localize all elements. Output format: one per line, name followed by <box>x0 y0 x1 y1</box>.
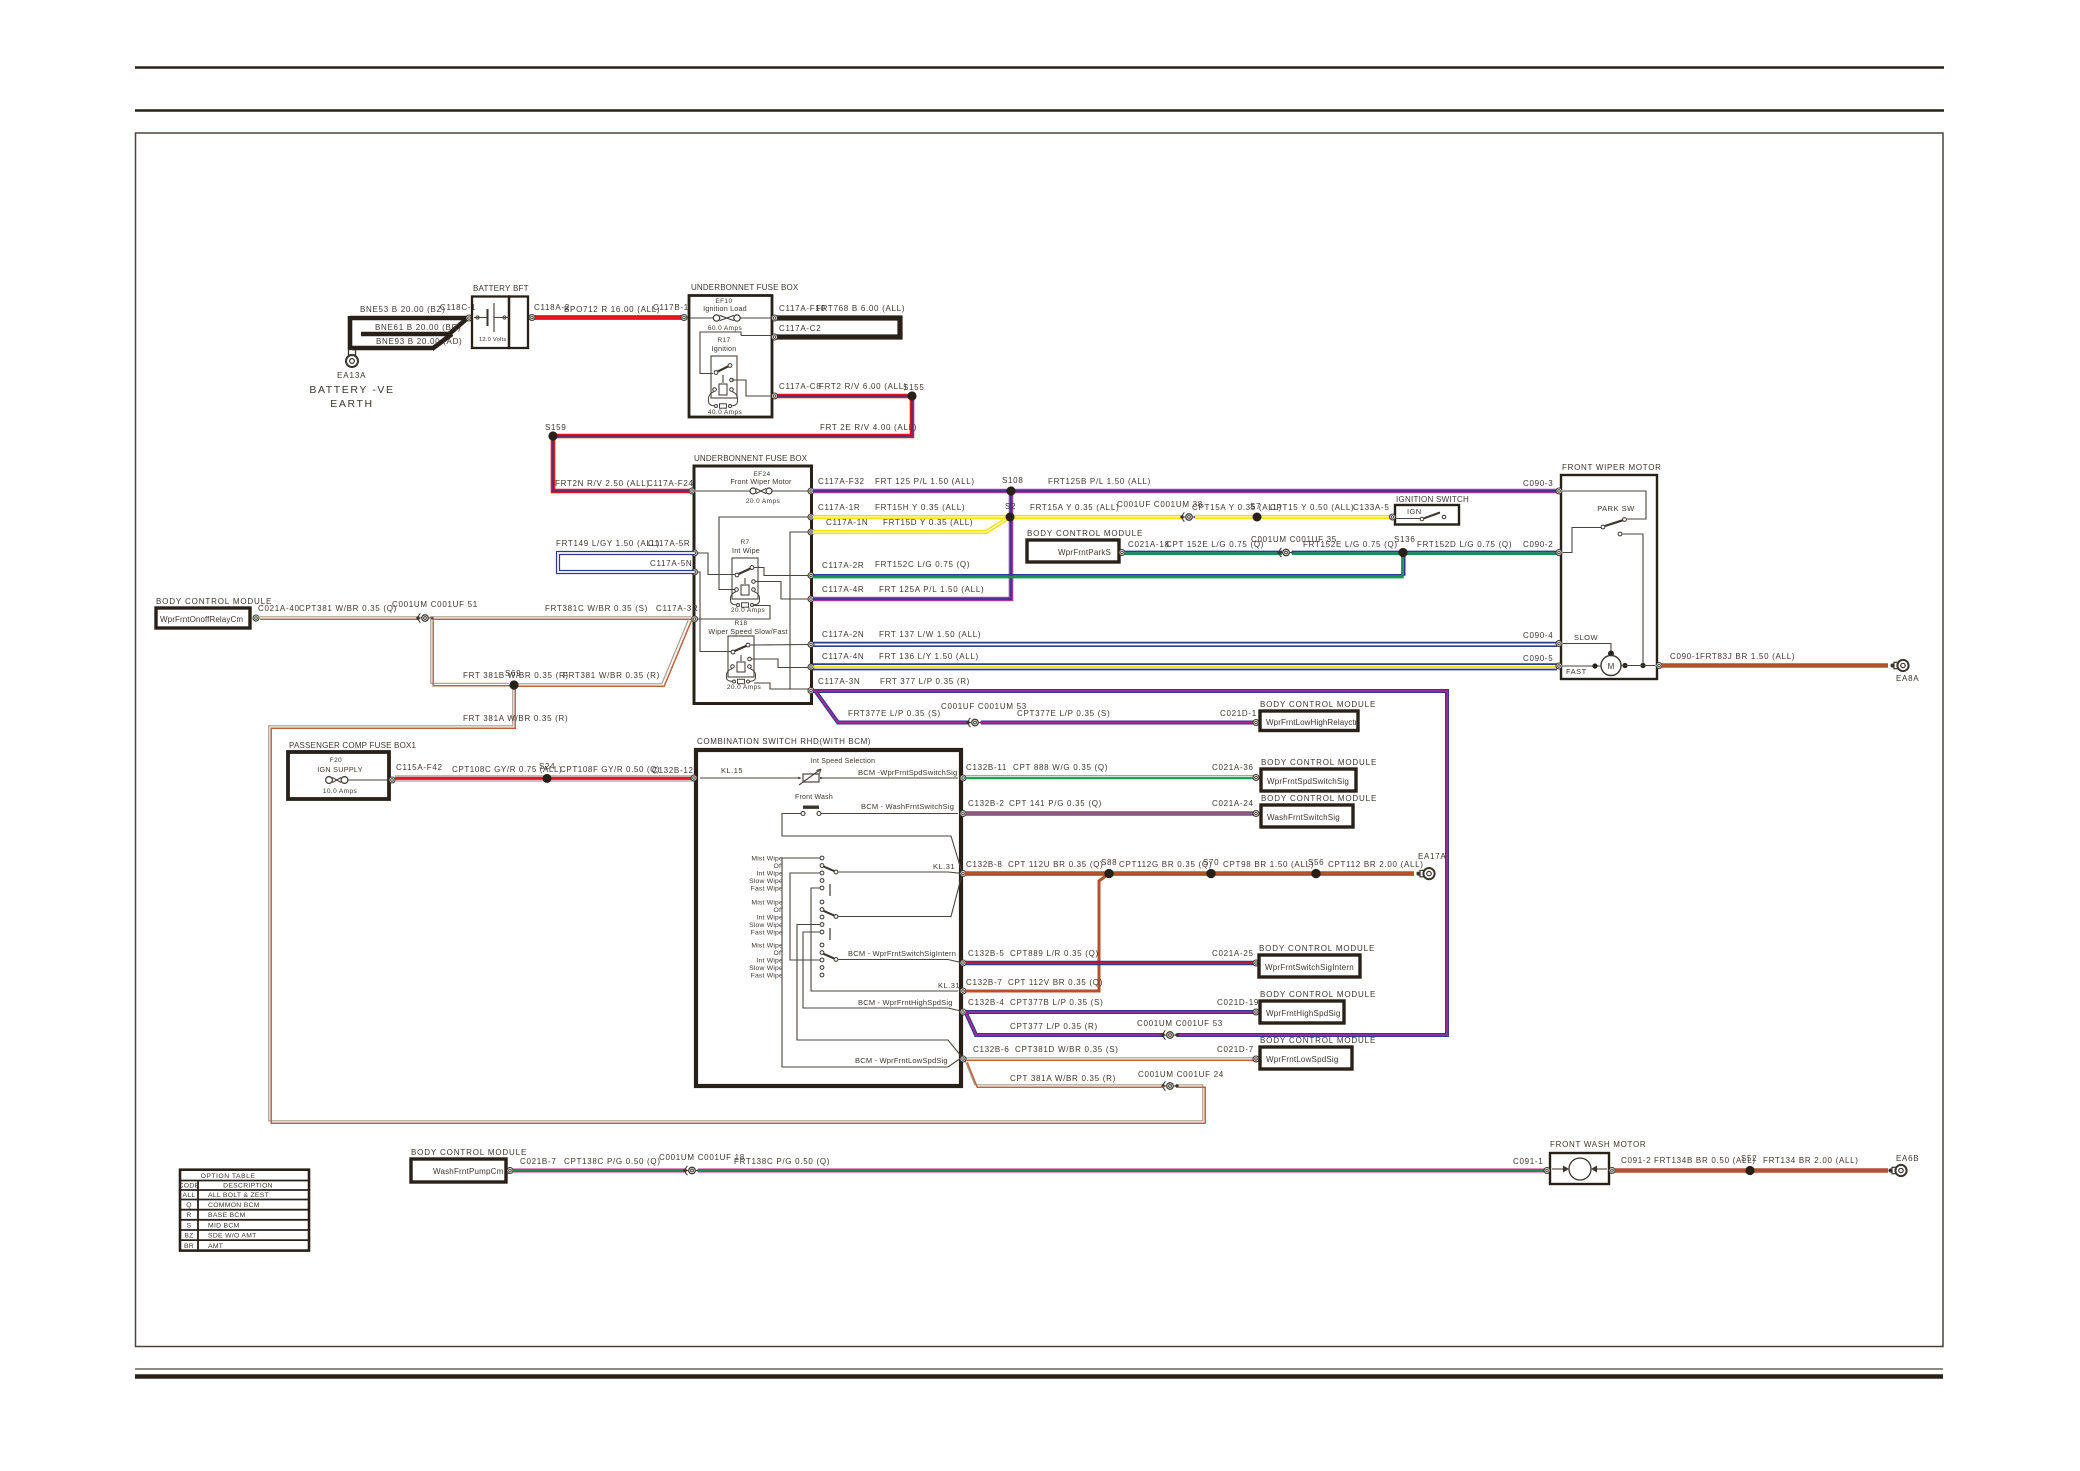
wire CPT377B L/P 0.35 (S) <box>966 1010 1255 1014</box>
inline connector C001UM C001UF 18 <box>683 1169 686 1172</box>
passenger comp fuse box1 <box>288 752 389 799</box>
svg-text:BATTERY: BATTERY <box>473 284 511 293</box>
svg-text:CPT 381A W/BR 0.35 (R): CPT 381A W/BR 0.35 (R) <box>1010 1074 1116 1083</box>
pin C132B-2 <box>960 811 966 817</box>
svg-text:10.0 Amps: 10.0 Amps <box>323 788 358 795</box>
svg-text:BASE BCM: BASE BCM <box>208 1212 246 1219</box>
wire FRT381C W/BR 0.35 (S) <box>430 616 691 618</box>
option table <box>180 1170 309 1251</box>
svg-text:CPT 141 P/G 0.35 (Q): CPT 141 P/G 0.35 (Q) <box>1009 799 1102 808</box>
svg-text:WprFrntParkS: WprFrntParkS <box>1058 548 1111 557</box>
svg-text:ALL BOLT & ZEST: ALL BOLT & ZEST <box>208 1192 269 1199</box>
svg-text:FRT 125A P/L 1.50 (ALL): FRT 125A P/L 1.50 (ALL) <box>879 585 984 594</box>
svg-text:C021D-7: C021D-7 <box>1217 1045 1254 1054</box>
svg-text:UNDERBONNET FUSE BOX: UNDERBONNET FUSE BOX <box>691 283 799 292</box>
wire FRT83J BR 1.50 (ALL) <box>1662 663 1888 668</box>
svg-text:CPT377E L/P 0.35 (S): CPT377E L/P 0.35 (S) <box>1017 709 1110 718</box>
svg-text:C117A-1R: C117A-1R <box>818 503 860 512</box>
ground EA17A <box>1416 872 1420 876</box>
wire FRT 137 L/W 1.50 (ALL) <box>813 642 1557 644</box>
svg-text:C021A-18: C021A-18 <box>1128 540 1170 549</box>
top rule 1 <box>135 66 1944 69</box>
wire FRT 125 P/L 1.50 (ALL) <box>813 489 1011 494</box>
svg-text:CPT 112V BR 0.35 (Q): CPT 112V BR 0.35 (Q) <box>1008 978 1103 987</box>
wire CPT112 BR 2.00 (ALL) <box>1316 871 1414 876</box>
svg-text:CPT889 L/R 0.35 (Q): CPT889 L/R 0.35 (Q) <box>1010 949 1099 958</box>
svg-text:FRT 377 L/P 0.35 (R): FRT 377 L/P 0.35 (R) <box>880 677 970 686</box>
splice S7 <box>1253 513 1262 522</box>
svg-text:C117A-F24: C117A-F24 <box>647 479 694 488</box>
pin C117A-1R <box>808 514 814 520</box>
wire CPT 141 P/G 0.35 (Q) <box>966 811 1255 815</box>
wire BNE53 B 20.00 (BZ) <box>350 316 467 321</box>
svg-text:C090-3: C090-3 <box>1523 479 1553 488</box>
wire CPT15A Y 0.35 (ALL) <box>1195 515 1257 519</box>
wire FRT768 B 6.00 (ALL) <box>774 318 900 337</box>
splice S159 <box>548 431 557 440</box>
wire FRT 381A W/BR 0.35 (R) <box>269 684 1203 1121</box>
svg-text:20.0 Amps: 20.0 Amps <box>746 498 781 505</box>
svg-text:C021D-19: C021D-19 <box>1217 998 1259 1007</box>
node C118A-2 <box>529 315 535 321</box>
wire CPT 888 W/G 0.35 (Q) <box>966 775 1255 777</box>
svg-text:C117A-1N: C117A-1N <box>826 518 868 527</box>
inline connector C001UM C001UF 24 <box>1161 1084 1164 1087</box>
svg-text:C001UM C001UF 18: C001UM C001UF 18 <box>659 1153 745 1162</box>
wiper motor fast feed <box>1563 665 1601 667</box>
fusebox2 internal wire C117A-5R to R7 <box>697 553 735 575</box>
svg-text:FRT149 L/GY 1.50 (ALL): FRT149 L/GY 1.50 (ALL) <box>556 539 660 548</box>
wire CPT377 L/P 0.35 (R) <box>966 1013 1164 1035</box>
svg-text:C091-2: C091-2 <box>1621 1156 1651 1165</box>
svg-text:F20: F20 <box>330 757 342 764</box>
svg-text:AMT: AMT <box>208 1243 223 1250</box>
wiper switch stack 1 <box>820 856 824 860</box>
svg-text:WprFrntLowSpdSig: WprFrntLowSpdSig <box>1266 1055 1339 1064</box>
svg-text:40.0 Amps: 40.0 Amps <box>708 409 743 416</box>
svg-text:FRT15A Y 0.35 (ALL): FRT15A Y 0.35 (ALL) <box>1030 503 1119 512</box>
svg-text:BODY CONTROL MODULE: BODY CONTROL MODULE <box>1261 758 1377 767</box>
pin C117A-2R <box>808 573 814 579</box>
top rule 2 <box>135 109 1944 112</box>
svg-text:C117A-4R: C117A-4R <box>822 585 864 594</box>
svg-text:BODY CONTROL MODULE: BODY CONTROL MODULE <box>411 1148 527 1157</box>
wire FRT152E L/G 0.75 (Q) <box>1292 551 1403 553</box>
wire FRT381 W/BR 0.35 (R) <box>513 619 689 684</box>
underbonnet fuse box <box>689 296 772 418</box>
fusebox2 internal wire C117A-3R to R7 fuse <box>697 606 770 620</box>
fusebox2 internal wire R7 to C117A-2R <box>754 568 809 576</box>
svg-text:BCM - WprFrntHighSpdSig: BCM - WprFrntHighSpdSig <box>858 998 953 1007</box>
pin C117A-3R <box>692 616 698 622</box>
fusebox2 internal wire C117A-1N loop <box>754 532 809 689</box>
svg-text:CPT15A Y 0.35 (ALL): CPT15A Y 0.35 (ALL) <box>1192 503 1282 512</box>
svg-text:SDE W/O AMT: SDE W/O AMT <box>208 1233 257 1240</box>
wire FRT125B P/L 1.50 (ALL) <box>1011 489 1557 494</box>
svg-text:S7: S7 <box>1250 502 1261 511</box>
wire BNE61 B 20.00 (BR) <box>361 332 450 337</box>
ground EA6B <box>1888 1168 1892 1172</box>
svg-text:WprFrntSpdSwitchSig: WprFrntSpdSwitchSig <box>1267 777 1349 786</box>
svg-text:C117A-3R: C117A-3R <box>656 604 698 613</box>
svg-text:COMMON BCM: COMMON BCM <box>208 1202 260 1209</box>
pin C090-2 <box>1556 550 1562 556</box>
svg-text:R7: R7 <box>740 539 749 546</box>
svg-text:BODY CONTROL MODULE: BODY CONTROL MODULE <box>1259 944 1375 953</box>
ground EA13A <box>349 350 356 356</box>
bcm box WprFrntLowHighRelayCtrl <box>1260 711 1358 731</box>
svg-text:20.0 Amps: 20.0 Amps <box>731 607 766 614</box>
wire CPT 112V BR 0.35 (Q) <box>965 874 1109 991</box>
ignition switch contacts <box>1396 518 1420 520</box>
svg-text:CPT 888 W/G 0.35 (Q): CPT 888 W/G 0.35 (Q) <box>1013 763 1108 772</box>
svg-text:EARTH: EARTH <box>330 398 373 410</box>
svg-text:BATTERY -VE: BATTERY -VE <box>309 384 394 396</box>
svg-text:UNDERBONNENT FUSE BOX: UNDERBONNENT FUSE BOX <box>694 454 808 463</box>
svg-text:S56: S56 <box>1308 858 1324 867</box>
svg-text:60.0 Amps: 60.0 Amps <box>708 325 743 332</box>
svg-text:CPT377B L/P 0.35 (S): CPT377B L/P 0.35 (S) <box>1010 998 1103 1007</box>
svg-text:SLOW: SLOW <box>1574 633 1599 642</box>
svg-text:C115A-F42: C115A-F42 <box>396 763 443 772</box>
svg-text:S155: S155 <box>903 383 924 392</box>
wire CPT98 BR 1.50 (ALL) <box>1211 871 1316 876</box>
svg-text:DESCRIPTION: DESCRIPTION <box>223 1182 273 1189</box>
wire FRT 136 L/Y 1.50 (ALL) <box>813 663 1557 665</box>
svg-text:Slow Wipe: Slow Wipe <box>749 922 783 929</box>
front wash switch feed wire <box>782 814 962 873</box>
svg-text:Fast Wipe: Fast Wipe <box>751 885 783 892</box>
svg-text:CPT138C P/G 0.50 (Q): CPT138C P/G 0.50 (Q) <box>564 1157 661 1166</box>
ignition switch box <box>1395 505 1459 525</box>
svg-text:BNE93 B 20.00 (AD): BNE93 B 20.00 (AD) <box>376 337 462 346</box>
wire BNE93 B 20.00 (AD) <box>352 346 434 351</box>
pin C090-4 <box>1556 641 1562 647</box>
svg-text:C132B-12: C132B-12 <box>652 766 694 775</box>
svg-text:C132B-5: C132B-5 <box>968 949 1004 958</box>
node C132B-12 pin <box>691 775 697 781</box>
fusebox2 internal wire C117A-5N to R18 <box>697 572 731 652</box>
svg-text:WprFrntHighSpdSig: WprFrntHighSpdSig <box>1266 1009 1341 1018</box>
svg-text:C090-2: C090-2 <box>1523 540 1553 549</box>
inline connector C001UM C001UF 51 <box>416 616 419 619</box>
front wash motor box <box>1550 1153 1609 1184</box>
svg-text:FRONT WASH MOTOR: FRONT WASH MOTOR <box>1550 1140 1646 1149</box>
svg-text:FRT134 BR 2.00 (ALL): FRT134 BR 2.00 (ALL) <box>1763 1156 1859 1165</box>
svg-text:C001UM C001UF 24: C001UM C001UF 24 <box>1138 1070 1224 1079</box>
bcm box WprFrntLowSpdSig <box>1260 1047 1352 1069</box>
svg-text:IGN SUPPLY: IGN SUPPLY <box>317 765 363 774</box>
svg-text:S159: S159 <box>545 423 566 432</box>
pin C117A-5N <box>692 569 698 575</box>
wire FRT 377 L/P 0.35 (R) <box>813 691 1447 1035</box>
bottom thin rule <box>135 1368 1943 1370</box>
svg-text:FRT152C L/G 0.75 (Q): FRT152C L/G 0.75 (Q) <box>875 560 970 569</box>
pin C132B-6 pin <box>960 1056 966 1062</box>
svg-text:CPT112G BR 0.35 (Q): CPT112G BR 0.35 (Q) <box>1119 860 1212 869</box>
node C021A-36 <box>1253 775 1259 781</box>
wiper switch stack 2 <box>820 900 824 904</box>
node C118C-1 <box>466 315 472 321</box>
svg-text:FRT2N R/V 2.50 (ALL): FRT2N R/V 2.50 (ALL) <box>555 479 650 488</box>
bottom thick rule <box>135 1374 1943 1379</box>
wiper switch stack 3 <box>820 943 824 947</box>
svg-text:EA13A: EA13A <box>337 371 366 380</box>
pin C117A-F32 <box>808 488 814 494</box>
svg-text:WashFrntSwitchSig: WashFrntSwitchSig <box>1267 813 1340 822</box>
svg-text:BFT: BFT <box>513 284 529 293</box>
wire CPT108F GY/R 0.50 (Q) <box>547 775 694 777</box>
svg-text:FRT381 W/BR 0.35 (R): FRT381 W/BR 0.35 (R) <box>563 671 660 680</box>
svg-text:PARK SW: PARK SW <box>1597 504 1635 513</box>
svg-text:Int Speed Selection: Int Speed Selection <box>811 758 876 765</box>
fusebox2 internal wire R7 to C117A-4R <box>756 582 810 600</box>
node C117A-F24 pin <box>689 488 695 494</box>
wiper motor slow feed <box>1563 644 1611 652</box>
pin C117A-1N <box>808 529 814 535</box>
node C117A-F10 <box>772 315 778 321</box>
wire FRT134B BR 0.50 (ALL) <box>1615 1168 1750 1172</box>
wire FRT134 BR 2.00 (ALL) <box>1750 1168 1888 1172</box>
svg-text:EA6B: EA6B <box>1896 1154 1919 1163</box>
node C021D-7 <box>1253 1056 1259 1062</box>
svg-text:BODY CONTROL MODULE: BODY CONTROL MODULE <box>1261 794 1377 803</box>
node C021A-40 <box>253 615 259 621</box>
pin C132B-11 <box>960 775 966 781</box>
svg-text:CPT377 L/P 0.35 (R): CPT377 L/P 0.35 (R) <box>1010 1022 1098 1031</box>
wire FRT2 R/V 6.00 (ALL) <box>553 396 912 491</box>
battery BFT box <box>472 297 509 349</box>
node C021B-7 <box>507 1168 513 1174</box>
pin C132B-8 <box>960 871 966 877</box>
inline connector C001UM C001UF 53 <box>1161 1033 1164 1036</box>
svg-text:MID BCM: MID BCM <box>208 1222 240 1229</box>
svg-text:S70: S70 <box>1203 858 1219 867</box>
underbonnent fuse box 2 <box>694 466 812 704</box>
svg-text:CPT 152E L/G 0.75 (Q): CPT 152E L/G 0.75 (Q) <box>1166 540 1264 549</box>
svg-text:FRT 137 L/W 1.50 (ALL): FRT 137 L/W 1.50 (ALL) <box>879 630 981 639</box>
bcm box WprFrntHighSpdSig <box>1260 1001 1344 1023</box>
svg-text:BNE53 B 20.00 (BZ): BNE53 B 20.00 (BZ) <box>360 305 446 314</box>
svg-text:C117A-F32: C117A-F32 <box>818 477 865 486</box>
svg-text:FRT152E L/G 0.75 (Q): FRT152E L/G 0.75 (Q) <box>1303 540 1398 549</box>
wire CPT 112U BR 0.35 (Q) <box>965 871 1109 876</box>
svg-text:BCM - WprFrntSwitchSigIntern: BCM - WprFrntSwitchSigIntern <box>848 949 956 958</box>
stack separator tick 2 <box>829 928 831 940</box>
svg-text:S2: S2 <box>1005 502 1016 511</box>
svg-text:FRT152D L/G 0.75 (Q): FRT152D L/G 0.75 (Q) <box>1417 540 1512 549</box>
wire BPO712 R 16.00 (ALL) <box>529 315 686 320</box>
svg-text:FRT377E L/P 0.35 (S): FRT377E L/P 0.35 (S) <box>848 709 941 718</box>
svg-text:KL.15: KL.15 <box>721 766 743 775</box>
pin C090-5 <box>1556 663 1562 669</box>
svg-text:BCM - WashFrntSwitchSig: BCM - WashFrntSwitchSig <box>861 802 954 811</box>
svg-text:Fast Wipe: Fast Wipe <box>751 972 783 979</box>
svg-text:C132B-6: C132B-6 <box>973 1045 1009 1054</box>
svg-text:C021A-36: C021A-36 <box>1212 763 1254 772</box>
pin C117A-4R <box>808 596 814 602</box>
svg-text:EA17A: EA17A <box>1418 852 1446 861</box>
svg-text:C132B-7: C132B-7 <box>966 978 1002 987</box>
svg-text:FRT138C P/G 0.50 (Q): FRT138C P/G 0.50 (Q) <box>734 1157 830 1166</box>
svg-text:R17: R17 <box>717 337 730 344</box>
svg-text:Ignition: Ignition <box>712 344 737 353</box>
svg-text:C001UF C001UM 38: C001UF C001UM 38 <box>1117 500 1203 509</box>
bcm box WprFrntSwitchSigIntern <box>1259 955 1360 977</box>
svg-text:Mist Wipe: Mist Wipe <box>751 942 783 949</box>
svg-text:M: M <box>1608 662 1615 671</box>
wire FRT15H Y 0.35 (ALL) <box>813 515 1010 519</box>
svg-text:FRT2 R/V 6.00 (ALL): FRT2 R/V 6.00 (ALL) <box>819 382 907 391</box>
wiper motor M <box>1601 656 1621 676</box>
svg-text:IGN: IGN <box>1407 507 1422 516</box>
svg-text:CPT15 Y 0.50 (ALL): CPT15 Y 0.50 (ALL) <box>1270 503 1354 512</box>
fusebox2 internal wire C117A-1R to R7 coil <box>719 517 809 590</box>
svg-text:C132B-4: C132B-4 <box>968 998 1004 1007</box>
fusebox2 internal wire R18 to C117A-2N <box>750 644 809 647</box>
svg-text:BODY CONTROL MODULE: BODY CONTROL MODULE <box>1260 700 1376 709</box>
splice S69 <box>509 680 518 689</box>
wiper motor park switch <box>1563 491 1646 519</box>
svg-text:C021A-25: C021A-25 <box>1212 949 1254 958</box>
svg-text:CPT 112U BR 0.35 (Q): CPT 112U BR 0.35 (Q) <box>1008 860 1104 869</box>
node C021D-19 <box>1253 1009 1259 1015</box>
svg-text:Front Wiper Motor: Front Wiper Motor <box>730 477 792 486</box>
fuse EF10 Ignition Load 60.0 Amps <box>690 317 713 319</box>
svg-text:WashFrntPumpCm: WashFrntPumpCm <box>433 1167 504 1176</box>
node C021A-25 <box>1253 960 1259 966</box>
node C091-1 <box>1544 1168 1550 1174</box>
svg-text:FRT768 B 6.00 (ALL): FRT768 B 6.00 (ALL) <box>816 304 905 313</box>
wire FRT138C P/G 0.50 (Q) <box>698 1169 1545 1173</box>
splice S155 <box>907 391 916 400</box>
svg-text:C117A-C2: C117A-C2 <box>779 324 821 333</box>
svg-text:FRT15D Y 0.35 (ALL): FRT15D Y 0.35 (ALL) <box>883 518 973 527</box>
svg-text:Wiper Speed Slow/Fast: Wiper Speed Slow/Fast <box>708 627 787 636</box>
wire battery negative bus <box>348 316 353 350</box>
svg-text:12.0 Volts: 12.0 Volts <box>479 337 506 343</box>
svg-text:C132B-11: C132B-11 <box>966 763 1007 772</box>
wire CPT15 Y 0.50 (ALL) <box>1257 515 1390 519</box>
pin C117A-5R <box>692 550 698 556</box>
svg-text:WprFrntLowHighRelayctrl: WprFrntLowHighRelayctrl <box>1266 718 1360 727</box>
bcm box WprFrntParkSwSig <box>1027 540 1119 562</box>
svg-text:R18: R18 <box>734 620 747 627</box>
splice S136 <box>1398 548 1407 557</box>
svg-text:C117A-4N: C117A-4N <box>822 652 864 661</box>
svg-text:WprFrntSwitchSigIntern: WprFrntSwitchSigIntern <box>1265 963 1354 972</box>
svg-text:C001UM C001UF 51: C001UM C001UF 51 <box>392 600 478 609</box>
node C021A-18 <box>1119 550 1125 556</box>
wire FRT152C L/G 0.75 (Q) <box>813 553 1405 575</box>
svg-text:C021A-24: C021A-24 <box>1212 799 1254 808</box>
svg-text:C090-4: C090-4 <box>1523 631 1553 640</box>
svg-text:Int Wipe: Int Wipe <box>756 914 783 921</box>
splice S24 <box>543 774 552 783</box>
svg-text:PASSENGER COMP FUSE BOX1: PASSENGER COMP FUSE BOX1 <box>289 741 417 750</box>
svg-text:Fast Wipe: Fast Wipe <box>751 929 783 936</box>
svg-text:S108: S108 <box>1002 476 1023 485</box>
splice S88 <box>1104 869 1113 878</box>
wire FRT 125A P/L 1.50 (ALL) <box>813 491 1011 599</box>
svg-text:Q: Q <box>186 1202 192 1209</box>
svg-text:FRT 2E R/V 4.00 (ALL): FRT 2E R/V 4.00 (ALL) <box>820 423 917 432</box>
node C117A-C8 <box>772 393 778 399</box>
pin C132B-5 <box>960 960 966 966</box>
fuse F20 IGN SUPPLY 10.0 Amps <box>326 777 333 784</box>
wire CPT381 W/BR 0.35 (Q) <box>258 616 417 618</box>
svg-text:ALL: ALL <box>183 1192 196 1199</box>
svg-text:FRT 381A W/BR 0.35 (R): FRT 381A W/BR 0.35 (R) <box>463 714 568 723</box>
wire FRT 381B W/BR 0.35 (R) <box>431 618 509 684</box>
pin C090-3 <box>1556 488 1562 494</box>
bcm box WprFrntSpdSwitchSig <box>1261 769 1356 791</box>
svg-text:BNE61 B 20.00 (BR): BNE61 B 20.00 (BR) <box>375 323 461 332</box>
combination switch RHD(WITH BCM) box <box>696 750 961 1086</box>
node C115A-F42 <box>389 777 395 783</box>
svg-text:S136: S136 <box>1394 535 1415 544</box>
pin C132B-7 <box>960 988 966 994</box>
pin C117A-4N <box>808 664 814 670</box>
svg-text:BCM - WprFrntLowSpdSig: BCM - WprFrntLowSpdSig <box>855 1056 948 1065</box>
svg-text:C132B-8: C132B-8 <box>966 860 1002 869</box>
svg-text:BODY CONTROL MODULE: BODY CONTROL MODULE <box>1027 529 1143 538</box>
node C021D-1 <box>1253 720 1259 726</box>
bcm box WprFrntOnoffRelayCmd <box>156 608 250 628</box>
svg-text:BCM -WprFrntSpdSwitchSig: BCM -WprFrntSpdSwitchSig <box>858 768 957 777</box>
svg-text:WprFrntOnoffRelayCm: WprFrntOnoffRelayCm <box>160 615 243 624</box>
svg-text:Mist Wipe: Mist Wipe <box>751 899 783 906</box>
svg-text:KL.31: KL.31 <box>933 862 955 871</box>
node C091-2 <box>1609 1168 1615 1174</box>
pin C117A-2N <box>808 642 814 648</box>
front wiper motor box <box>1561 475 1657 679</box>
wash motor symbol <box>1569 1158 1591 1180</box>
wire CPT377E L/P 0.35 (S) <box>981 721 1255 725</box>
node C117B-1 <box>681 315 687 321</box>
svg-text:C117A-5N: C117A-5N <box>650 559 692 568</box>
svg-text:FRT15H Y 0.35 (ALL): FRT15H Y 0.35 (ALL) <box>875 503 965 512</box>
svg-text:R: R <box>186 1212 191 1219</box>
svg-text:OPTION TABLE: OPTION TABLE <box>201 1173 256 1180</box>
pin C132B-4 <box>960 1009 966 1015</box>
svg-text:C117A-2R: C117A-2R <box>822 561 864 570</box>
svg-text:FRT125B P/L 1.50 (ALL): FRT125B P/L 1.50 (ALL) <box>1048 477 1151 486</box>
pin C090-1 <box>1656 663 1662 669</box>
svg-text:FRT 136 L/Y 1.50 (ALL): FRT 136 L/Y 1.50 (ALL) <box>879 652 979 661</box>
svg-text:CPT381 W/BR 0.35 (Q): CPT381 W/BR 0.35 (Q) <box>299 604 397 613</box>
svg-text:EA8A: EA8A <box>1896 674 1919 683</box>
svg-text:20.0 Amps: 20.0 Amps <box>727 684 762 691</box>
wire CPT138C P/G 0.50 (Q) <box>513 1169 686 1173</box>
svg-text:S52: S52 <box>1741 1154 1757 1163</box>
wire CPT381D W/BR 0.35 (S) <box>964 1057 1254 1059</box>
svg-text:FAST: FAST <box>1566 667 1587 676</box>
svg-text:C132B-2: C132B-2 <box>968 799 1004 808</box>
svg-text:C091-1: C091-1 <box>1513 1157 1543 1166</box>
svg-text:Int Wipe: Int Wipe <box>732 546 760 555</box>
svg-text:C021B-7: C021B-7 <box>520 1157 556 1166</box>
svg-text:BPO712 R 16.00 (ALL): BPO712 R 16.00 (ALL) <box>564 305 660 314</box>
svg-text:CODE: CODE <box>179 1182 200 1189</box>
bcm box WashFrntPumpCmd <box>411 1159 506 1182</box>
splice S52 <box>1745 1166 1754 1175</box>
svg-text:Int Wipe: Int Wipe <box>756 957 783 964</box>
svg-text:Int Wipe: Int Wipe <box>756 870 783 877</box>
fusebox2 internal wire C117A-3N stub <box>790 688 809 690</box>
svg-text:C090-5: C090-5 <box>1523 654 1553 663</box>
svg-text:C001UF C001UM 53: C001UF C001UM 53 <box>941 702 1027 711</box>
